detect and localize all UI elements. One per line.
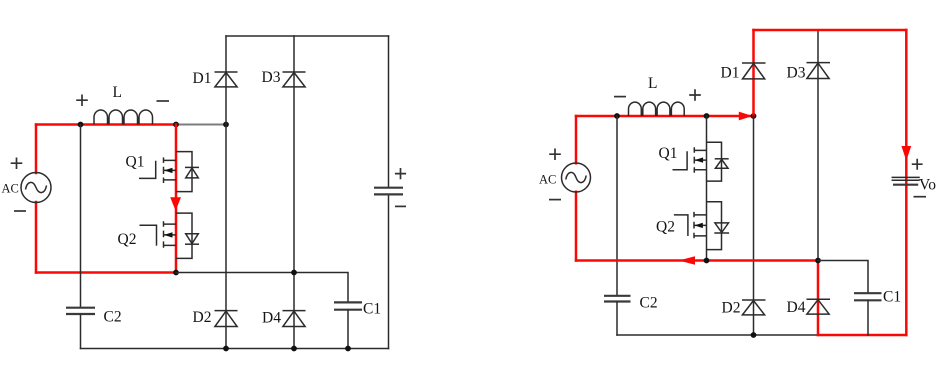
node: bottom of switch leg	[704, 258, 710, 264]
svg-text:C1: C1	[883, 289, 901, 306]
svg-text:Q1: Q1	[126, 153, 145, 170]
wire: C2 branch upper	[80, 125, 82, 308]
svg-text:D3: D3	[262, 69, 281, 86]
wire: left vertical red above AC source	[35, 125, 38, 174]
plus sign of output cap	[395, 168, 406, 179]
node: D1-D2 midpoint junction	[751, 113, 757, 119]
wire: right rail red	[905, 30, 908, 335]
svg-text:Q2: Q2	[118, 231, 137, 248]
wire: C2 to bottom rail	[80, 315, 82, 349]
svg-text:D1: D1	[721, 65, 740, 82]
svg-text:D1: D1	[193, 70, 212, 87]
wire: C2 to bottom rail	[616, 302, 618, 335]
plus sign right of L	[689, 89, 701, 101]
wire: bridge left leg	[225, 36, 227, 349]
capacitor C1	[854, 293, 882, 300]
wire: left vertical red below AC source	[35, 202, 38, 273]
capacitor C2	[604, 296, 631, 302]
wire: top wire Q-leg to bridge left leg	[176, 124, 226, 126]
diode D4	[283, 311, 306, 327]
wire: bottom red wire AC to Q-leg bottom	[36, 271, 176, 274]
wire: middle wire to C1	[818, 261, 868, 293]
current arrow (right) on top wire	[739, 112, 753, 121]
wire: bridge left leg black lower part	[753, 116, 755, 335]
current arrow (down) between Q1 and Q2	[170, 197, 181, 210]
svg-text:L: L	[113, 84, 122, 101]
node: top of switch leg	[704, 113, 710, 119]
wire: left vertical red below AC source	[575, 192, 578, 261]
node: D3-D4 midpoint junction	[291, 270, 297, 276]
capacitor Co (output, left circuit)	[374, 188, 403, 195]
wire: bridge left leg red upper part through D1	[752, 30, 755, 116]
minus sign of Vo	[914, 196, 927, 198]
wire: top rail red	[754, 29, 907, 32]
inductor L (right)	[629, 102, 685, 116]
wire: bridge right leg	[293, 36, 295, 349]
wire: middle bottom wire to C1	[176, 273, 348, 303]
wire: bridge right leg black upper part	[817, 30, 819, 261]
wire: C2 branch upper	[616, 116, 618, 295]
node: D2 anode on bottom rail	[751, 332, 757, 338]
svg-text:D4: D4	[787, 299, 806, 316]
diode D2	[742, 300, 766, 315]
plus sign of AC	[549, 149, 561, 161]
diode D1	[215, 72, 238, 87]
wire: left top red wire AC to Q-leg	[36, 123, 176, 126]
wire: middle red return wire	[576, 259, 818, 262]
svg-text:Q2: Q2	[656, 219, 675, 236]
diode D3	[283, 72, 306, 87]
node: bottom of switch leg	[173, 270, 179, 276]
wire: right rail upper	[388, 36, 390, 187]
node: D1-D2 midpoint junction	[223, 122, 229, 128]
svg-text:Vo: Vo	[919, 177, 936, 194]
wire: C1 to bottom rail	[867, 301, 869, 335]
minus sign right of L	[157, 100, 170, 102]
transistor Q2	[140, 213, 200, 258]
wire: top red wire AC to bridge	[576, 115, 754, 118]
node: C1 on bottom rail	[345, 346, 351, 352]
node: AC-line / C2 junction	[614, 113, 620, 119]
ac source V1	[21, 173, 51, 203]
svg-text:Q1: Q1	[659, 145, 678, 162]
transistor Q1	[139, 152, 199, 192]
node: D2 anode on bottom rail	[223, 346, 229, 352]
plus sign left of L	[76, 95, 88, 107]
svg-text:C2: C2	[104, 309, 122, 326]
capacitor C1	[334, 302, 362, 309]
svg-text:L: L	[648, 75, 657, 92]
node: D3-D4 midpoint junction	[815, 258, 821, 264]
current arrow (down) on right rail	[901, 146, 911, 161]
svg-text:D2: D2	[722, 300, 741, 317]
svg-text:AC: AC	[2, 182, 19, 196]
node: AC-line / C2 junction	[78, 122, 84, 128]
node: D4 anode on bottom rail	[291, 346, 297, 352]
capacitor Vo (output)	[892, 177, 919, 184]
minus sign of output cap	[395, 205, 406, 207]
minus sign of AC	[549, 199, 561, 201]
wire: switch leg (black)	[706, 116, 708, 261]
svg-text:AC: AC	[539, 173, 556, 187]
current arrow (left) on return wire	[679, 256, 695, 265]
diode D1	[742, 63, 766, 79]
wire: bridge right leg red lower part through D4	[817, 261, 820, 336]
ac source V2	[562, 163, 591, 192]
svg-text:C1: C1	[363, 301, 381, 318]
wire: bottom rail	[81, 348, 389, 350]
plus sign of AC	[11, 158, 23, 170]
node: top of switch leg	[173, 122, 179, 128]
inductor L	[94, 110, 153, 125]
plus sign of Vo	[912, 159, 923, 170]
wire: right rail lower	[388, 195, 390, 349]
diode D3	[807, 63, 831, 79]
svg-text:D4: D4	[262, 310, 281, 327]
svg-text:D2: D2	[193, 309, 212, 326]
wire: bottom rail black part	[617, 334, 818, 336]
minus sign left of L	[614, 96, 626, 98]
diode D4	[807, 299, 831, 314]
wire: top rail	[226, 35, 389, 37]
wire: left vertical red above AC source	[575, 116, 578, 163]
transistor Q1	[673, 142, 729, 181]
wire: bottom rail red part	[818, 334, 906, 337]
svg-text:D3: D3	[787, 65, 806, 82]
wire: C1 to bottom rail	[347, 310, 349, 349]
capacitor C2	[66, 308, 95, 314]
transistor Q2	[674, 202, 729, 250]
minus sign of AC	[14, 210, 26, 212]
diode D2	[215, 311, 238, 327]
svg-text:C2: C2	[640, 295, 658, 312]
wire: switch leg (red)	[175, 125, 178, 273]
